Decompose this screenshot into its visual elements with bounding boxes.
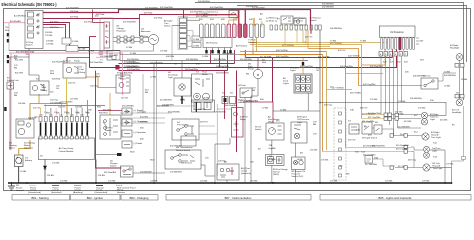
- svg-text:Lights: Lights: [290, 69, 297, 72]
- svg-text:301 Red: 301 Red: [50, 21, 59, 23]
- svg-text:107 Wht: 107 Wht: [70, 98, 79, 101]
- svg-text:12A Blk: 12A Blk: [198, 108, 206, 111]
- svg-text:72 Blk: 72 Blk: [262, 108, 269, 110]
- svg-text:413 Blk: 413 Blk: [404, 121, 412, 123]
- connector pins frame left: [7, 33, 9, 42]
- label E4 Left Hazard: [433, 162, 443, 170]
- module pin labels: [39, 112, 89, 136]
- svg-text:406 Yel: 406 Yel: [360, 108, 368, 110]
- svg-text:Sensor: Sensor: [273, 171, 280, 174]
- svg-text:Light: Light: [168, 76, 173, 79]
- wire tan hour meter drop: [109, 93, 111, 115]
- svg-text:170 Blk: 170 Blk: [330, 181, 338, 183]
- wire gray run y106: [157, 105, 197, 107]
- maroon element in S6: [230, 167, 234, 175]
- maroon rail label patches: [66, 6, 353, 122]
- label E4 tail: [432, 147, 441, 153]
- svg-text:Voltage: Voltage: [117, 27, 125, 30]
- label B2 Voltage Regulator: [117, 26, 127, 33]
- label G2 Alternator: [141, 29, 151, 34]
- svg-text:B+ Blk: B+ Blk: [79, 49, 86, 51]
- svg-text:411 Org/Wht: 411 Org/Wht: [368, 116, 381, 119]
- position box under bars: [203, 38, 232, 48]
- extra tan line y46.5: [255, 46, 330, 48]
- S4 park brake switch: [240, 88, 252, 98]
- fusebox side bracket: [416, 38, 419, 44]
- label M2 Fuel Pump: [248, 64, 254, 71]
- label P1 Fuel Gauge: [268, 116, 280, 124]
- junction instr ground: [319, 182, 321, 184]
- wire VR ground drop: [103, 48, 105, 51]
- label S6: [241, 167, 251, 175]
- svg-text:410 Red/Wht: 410 Red/Wht: [368, 112, 381, 115]
- svg-text:404 Yel/Wht: 404 Yel/Wht: [276, 49, 288, 52]
- pin marks: [224, 98, 227, 102]
- pink connector on acc line: [26, 52, 29, 55]
- svg-text:106 Red: 106 Red: [28, 118, 37, 120]
- wire turn to lights gray: [438, 73, 456, 81]
- svg-text:101 Yel: 101 Yel: [33, 108, 41, 110]
- pink stub wire: [96, 56, 112, 58]
- svg-text:413 Blk/Wht: 413 Blk/Wht: [398, 125, 410, 128]
- wire gray rail y60.7: [120, 60, 308, 62]
- wire black stub y154.5: [96, 154, 117, 156]
- wire maroon rail 301 Red/Wht: [119, 63, 235, 65]
- svg-text:All Light/: All Light/: [164, 20, 173, 23]
- svg-text:W02: W02: [130, 152, 135, 154]
- wire strip fan black2: [172, 24, 187, 26]
- wire instr ground drop: [319, 30, 321, 183]
- svg-text:16 Blk: 16 Blk: [461, 79, 468, 81]
- headlight pin bars: [455, 95, 464, 98]
- svg-text:404 Yel/Wht: 404 Yel/Wht: [348, 55, 360, 58]
- svg-text:452 Wht/Blk: 452 Wht/Blk: [170, 145, 183, 148]
- wire cluster drops: [195, 102, 197, 112]
- label X2 Flood Light: [450, 44, 460, 50]
- svg-text:Regulator: Regulator: [117, 30, 127, 33]
- label A1 Time Delay Control Module: [59, 147, 75, 153]
- svg-text:(+) Indicator (+): (+) Indicator (+): [203, 11, 218, 14]
- svg-text:100 Blk: 100 Blk: [18, 103, 26, 105]
- svg-text:Discharge: Discharge: [168, 74, 179, 77]
- svg-text:170 Blk: 170 Blk: [250, 181, 258, 183]
- svg-text:411 Red/Blk: 411 Red/Blk: [260, 56, 273, 58]
- wire K1 feed from key: [29, 57, 39, 75]
- wire flood down to headlight: [459, 67, 461, 99]
- svg-text:E3 Right: E3 Right: [431, 131, 440, 134]
- wire orange module bus: [44, 105, 105, 107]
- label E6 Dash Lights: [283, 78, 290, 85]
- svg-text:552 Blk/Wht: 552 Blk/Wht: [214, 58, 226, 61]
- K1 start relay: [30, 81, 49, 95]
- svg-text:Ground: Ground: [16, 189, 24, 192]
- svg-text:104 Org: 104 Org: [90, 85, 99, 88]
- extra texture labels mid-left: [30, 16, 455, 165]
- diode labels: [134, 110, 148, 145]
- svg-text:E2 Left: E2 Left: [452, 109, 459, 112]
- svg-text:411 Org/Wht: 411 Org/Wht: [362, 120, 375, 123]
- svg-text:Light: Light: [297, 121, 302, 124]
- label H2 Discharge Light: [168, 72, 179, 79]
- wire S6 ground: [226, 180, 228, 183]
- svg-text:401 Red/Wht: 401 Red/Wht: [66, 6, 79, 9]
- svg-text:452 Wht/Blk: 452 Wht/Blk: [157, 105, 170, 108]
- svg-text:170 Blk: 170 Blk: [160, 50, 168, 52]
- wire tan feed into bars: [234, 15, 238, 24]
- B3 oil pressure switch lower: [292, 157, 306, 170]
- label S1 Key Switch: [26, 42, 34, 47]
- svg-text:Brake: Brake: [202, 73, 208, 76]
- ground: [8, 182, 15, 190]
- svg-text:303 Red/Wht: 303 Red/Wht: [127, 68, 140, 71]
- svg-text:407 Wht/Blk: 407 Wht/Blk: [124, 61, 137, 64]
- svg-text:Circuit: Circuit: [241, 170, 248, 173]
- wire orange feeder from bar: [252, 37, 254, 54]
- svg-text:Solenoid: Solenoid: [24, 148, 33, 150]
- svg-text:414 Blk/Wht: 414 Blk/Wht: [160, 99, 172, 102]
- svg-text:170 Blk: 170 Blk: [446, 164, 454, 166]
- wire E2 headlight ground return: [452, 106, 464, 168]
- wire red U drop left: [238, 9, 240, 24]
- label S4 park brake: [238, 84, 247, 104]
- svg-text:Switch: Switch: [255, 128, 262, 131]
- wire tan E5 feeder: [250, 45, 362, 119]
- svg-text:Solenoid: Solenoid: [248, 42, 257, 44]
- wire tan E4 tail drop: [345, 58, 347, 148]
- svg-text:(-) Operation: (-) Operation: [134, 131, 147, 134]
- svg-text:301 Red: 301 Red: [84, 21, 93, 23]
- svg-text:A1 Wht/Blk: A1 Wht/Blk: [10, 20, 22, 23]
- svg-text:415 Red/Wht: 415 Red/Wht: [396, 144, 409, 147]
- diode pack column: [122, 108, 132, 148]
- svg-text:50A: 50A: [30, 50, 34, 53]
- wire strip ground vertical: [171, 25, 173, 60]
- labels tail feeds: [362, 112, 375, 123]
- hour meter part box: [116, 75, 130, 93]
- label S3 cluster: [196, 72, 208, 77]
- svg-text:6: 6: [66, 134, 67, 136]
- svg-text:K2 Fusebox: K2 Fusebox: [390, 31, 404, 34]
- label K1 Start Relay: [42, 85, 48, 92]
- svg-text:105 Yel: 105 Yel: [68, 83, 76, 85]
- wire tan vertical bundle x327: [326, 52, 328, 151]
- wire battery positive: [18, 149, 20, 156]
- A1 time delay module box: [38, 138, 94, 160]
- wire tan relay feed: [86, 77, 116, 88]
- svg-text:104 Org: 104 Org: [50, 99, 59, 102]
- svg-text:S7 Hazard: S7 Hazard: [310, 17, 321, 20]
- svg-text:406 Blk/Wht: 406 Blk/Wht: [413, 75, 425, 78]
- svg-text:401 Red/Wht: 401 Red/Wht: [190, 10, 203, 13]
- svg-text:418 Yel/Blk: 418 Yel/Blk: [350, 93, 362, 95]
- maroon rail labels: [127, 56, 383, 71]
- P1 fuel gauge: [266, 123, 284, 140]
- wire pink module drop: [10, 53, 12, 150]
- M1 starting motor: [16, 119, 34, 138]
- svg-text:170 Blk: 170 Blk: [98, 175, 106, 177]
- svg-text:303 Red/Wht: 303 Red/Wht: [185, 68, 198, 71]
- svg-text:W0 Position: W0 Position: [206, 42, 218, 45]
- svg-text:W02: W02: [150, 160, 155, 162]
- label X14: [361, 152, 378, 160]
- junction gauge ground: [272, 182, 274, 184]
- svg-text:170 Blk: 170 Blk: [321, 160, 329, 162]
- svg-text:161 Blk: 161 Blk: [310, 150, 318, 152]
- svg-text:(+) Meter (+): (+) Meter (+): [266, 17, 279, 20]
- connector row 2 (270-320): [270, 25, 321, 30]
- ground bus: [8, 182, 452, 184]
- svg-text:460 Red/Blk: 460 Red/Blk: [225, 105, 238, 107]
- wire tan battery to module: [30, 104, 67, 121]
- K2 fuel pump relay: [63, 63, 86, 78]
- wire module ground x96: [95, 160, 97, 184]
- wire fuel pump feed: [257, 58, 259, 69]
- label hour meter: [117, 72, 125, 75]
- wire maroon alternator rail 402 Red: [43, 15, 237, 19]
- svg-text:(-) Meter (-): (-) Meter (-): [266, 20, 277, 23]
- wire A1 ground diode: [44, 160, 47, 184]
- svg-text:170 Blk: 170 Blk: [268, 182, 276, 184]
- wire orange aux rail 400 Org: [240, 54, 323, 56]
- wire maroon fuel gauge drop: [243, 102, 273, 123]
- svg-text:170 Blk: 170 Blk: [46, 44, 54, 46]
- svg-text:417 Yel/Wht: 417 Yel/Wht: [332, 86, 344, 89]
- svg-text:(Switched): (Switched): [51, 191, 62, 194]
- position box pin marks: [205, 50, 231, 53]
- wire K1 top: [38, 75, 40, 81]
- svg-text:Switch: Switch: [310, 19, 317, 22]
- legend row: [8, 182, 136, 194]
- svg-text:Hazard/: Hazard/: [431, 134, 439, 137]
- E5 right tail turn light: [421, 112, 427, 125]
- svg-text:Tail/Turn: Tail/Turn: [432, 147, 441, 150]
- svg-text:408 Wht: 408 Wht: [166, 55, 175, 58]
- svg-text:(120): (120): [180, 100, 185, 102]
- label S2 light turn switch: [164, 20, 173, 28]
- wire tan aux rail 404 Yel/Wht: [240, 51, 327, 53]
- svg-text:B03 - Charging: B03 - Charging: [130, 196, 149, 200]
- svg-text:14 Blk: 14 Blk: [193, 45, 200, 47]
- svg-text:417 Blk/Wht: 417 Blk/Wht: [365, 163, 377, 166]
- svg-text:30 Red/Wht: 30 Red/Wht: [222, 52, 234, 55]
- wire orange vertical x358: [308, 49, 359, 86]
- hazard switch box: [281, 16, 293, 24]
- flood connector bars: [455, 64, 464, 68]
- turn signal switch: [421, 78, 438, 89]
- svg-text:Relay: Relay: [80, 72, 86, 74]
- label M1 Starting Motor: [9, 142, 36, 150]
- wire orange fuse riser: [361, 50, 385, 66]
- wire label texture group 2: [5, 5, 459, 184]
- labels gauge wires: [269, 145, 277, 161]
- K3 PTO relay maroon: [232, 108, 244, 138]
- svg-text:170 Blk: 170 Blk: [60, 181, 68, 183]
- svg-text:E4 Left: E4 Left: [433, 162, 440, 165]
- section box B03 Charging: [121, 195, 158, 201]
- wire discharge drop: [181, 61, 183, 78]
- svg-text:418 Org: 418 Org: [408, 159, 417, 162]
- svg-text:401 Red/Wht: 401 Red/Wht: [160, 6, 173, 9]
- svg-text:E05 Red: E05 Red: [99, 113, 108, 115]
- W3 pins: [339, 112, 342, 177]
- svg-text:Motor: Motor: [9, 147, 15, 150]
- B2 voltage regulator: [100, 18, 113, 51]
- svg-text:12 Blk: 12 Blk: [88, 50, 95, 52]
- label E2 Left Headlight: [452, 109, 462, 115]
- svg-text:401 Red/Wht: 401 Red/Wht: [145, 6, 158, 9]
- wire maroon strip feed: [183, 9, 185, 18]
- label F1 Fusible Link: [7, 78, 19, 83]
- wire alternator maroon drop: [139, 19, 141, 37]
- svg-text:416 Org/Wht: 416 Org/Wht: [396, 148, 409, 151]
- X14 connector box left of E4: [365, 156, 373, 164]
- wire gray run y109: [217, 108, 231, 110]
- wire pink key switch feed: [4, 22, 25, 24]
- svg-text:8: 8: [76, 134, 77, 136]
- svg-text:Tail/Turn: Tail/Turn: [430, 116, 439, 119]
- svg-text:453 Wht/Blk: 453 Wht/Blk: [168, 110, 181, 113]
- svg-text:552 Blk/Wht: 552 Blk/Wht: [186, 58, 198, 61]
- svg-text:402 Red: 402 Red: [96, 14, 105, 16]
- wire maroon main rail 401 Red/Wht: [43, 10, 311, 26]
- svg-text:9: 9: [81, 134, 82, 136]
- svg-text:301 Red/Wht: 301 Red/Wht: [150, 61, 163, 64]
- svg-text:E3 Right: E3 Right: [450, 44, 459, 47]
- svg-text:Light: Light: [430, 118, 435, 121]
- svg-text:471 Red/Blk: 471 Red/Blk: [240, 100, 253, 102]
- wire X14 link: [373, 159, 396, 166]
- svg-text:Hour: Hour: [120, 75, 125, 78]
- labels small boxes: [193, 39, 200, 48]
- svg-text:300 Red: 300 Red: [124, 73, 133, 75]
- svg-text:Yel: Yel: [316, 70, 319, 72]
- fusebox K2: [379, 26, 415, 37]
- svg-text:(Unswitched): (Unswitched): [95, 191, 108, 194]
- junction panel ground: [153, 182, 155, 184]
- svg-text:125 Blk/Wht: 125 Blk/Wht: [170, 171, 182, 174]
- wire orange vertical bundle x323: [322, 55, 324, 152]
- wire gray vertical x143: [142, 74, 144, 113]
- wire maroon instrument drop x224: [224, 71, 226, 120]
- E4 left tail turn light: [424, 146, 430, 158]
- svg-text:801 Wht: 801 Wht: [15, 59, 24, 62]
- svg-text:302 Red/Wht: 302 Red/Wht: [216, 65, 229, 68]
- wire S1 S maroon: [43, 25, 66, 39]
- svg-text:461 Red: 461 Red: [103, 110, 112, 112]
- svg-text:72 Blk: 72 Blk: [280, 109, 287, 111]
- svg-text:14 Blk: 14 Blk: [202, 56, 209, 58]
- wire label texture group: [15, 11, 448, 183]
- wire E4 feeds orange: [323, 148, 412, 152]
- svg-text:102 Yel: 102 Yel: [58, 107, 66, 109]
- wire S1 ground drop: [9, 49, 29, 58]
- svg-text:453 Wht/Blk: 453 Wht/Blk: [122, 105, 135, 108]
- svg-text:305 Red: 305 Red: [70, 11, 79, 13]
- F1 fusible link: [7, 82, 14, 89]
- svg-text:Start: Start: [42, 86, 47, 89]
- wire maroon A1 plug: [96, 71, 122, 169]
- wire tan branch y73.5: [346, 73, 384, 75]
- svg-text:500 Blk/Wht: 500 Blk/Wht: [322, 3, 334, 6]
- svg-text:72 Blk: 72 Blk: [360, 41, 367, 43]
- wire strip fan gray4: [187, 36, 191, 40]
- svg-text:302 Red/Wht: 302 Red/Wht: [300, 65, 313, 68]
- wire maroon rail 303 Red/Wht: [119, 70, 228, 72]
- svg-text:Lights: Lights: [283, 82, 290, 85]
- battery G1: [15, 155, 24, 167]
- wire gray rail y54.5: [120, 54, 273, 56]
- wire brake cluster drop: [195, 102, 197, 112]
- svg-text:415 Red: 415 Red: [140, 36, 149, 38]
- M3 transmission neutral switch: [165, 150, 201, 169]
- label S4 PTO Switch: [177, 122, 189, 127]
- svg-text:415 Red/Wht: 415 Red/Wht: [372, 144, 385, 147]
- labels E4 feeds: [363, 144, 376, 156]
- wire pink accessory run: [9, 53, 123, 95]
- fuses: [381, 38, 415, 50]
- svg-text:(+) Diode: (+) Diode: [137, 111, 147, 113]
- svg-text:170 Blk: 170 Blk: [418, 108, 426, 110]
- wire orange feeder drop: [252, 50, 254, 54]
- headlight switch pin row: [379, 52, 407, 57]
- wire S4 outputs: [199, 126, 217, 134]
- wire relay internals: [234, 112, 239, 130]
- wire red U lower extension: [244, 50, 246, 58]
- wire S1 acc black: [43, 26, 64, 28]
- svg-text:126 Blk: 126 Blk: [202, 98, 210, 100]
- svg-text:128 Gry: 128 Gry: [218, 160, 227, 163]
- svg-text:4: 4: [55, 134, 56, 136]
- svg-text:170 Blk: 170 Blk: [422, 181, 430, 183]
- label G1 Battery: [25, 158, 33, 163]
- labels to E5: [396, 113, 412, 123]
- svg-text:M3 Neutral: M3 Neutral: [181, 162, 192, 165]
- wire maroon fuel gauge drop x273: [272, 58, 274, 103]
- svg-text:X1 Blk: X1 Blk: [72, 41, 79, 43]
- svg-text:Turn: Turn: [164, 22, 169, 25]
- wire black rail y51: [9, 50, 120, 52]
- wire seat to nss: [133, 172, 165, 174]
- svg-text:103 Blk: 103 Blk: [46, 41, 54, 43]
- svg-text:Yel: Yel: [56, 88, 59, 90]
- svg-text:500 Blk/Wht: 500 Blk/Wht: [410, 97, 422, 100]
- svg-text:2: 2: [45, 134, 46, 136]
- dash lights connector block: [294, 74, 312, 93]
- fuel solenoid box: [294, 18, 306, 25]
- wire dash lights ground: [308, 93, 320, 111]
- svg-text:S4 PTO: S4 PTO: [200, 122, 208, 124]
- svg-text:170 Blk: 170 Blk: [45, 35, 53, 37]
- wire maroon riser x210: [210, 50, 212, 64]
- W3 harness dashed strip: [334, 108, 346, 180]
- svg-text:Switch: Switch: [105, 129, 112, 132]
- svg-text:Pump: Pump: [74, 61, 80, 63]
- V1 connector box pair: [192, 100, 215, 112]
- svg-text:A3 (P)art: A3 (P)art: [241, 167, 250, 170]
- indicator labels: [203, 11, 218, 17]
- svg-text:B02 - Ignition: B02 - Ignition: [87, 196, 104, 200]
- svg-text:Harness: Harness: [117, 191, 126, 194]
- wire module pin feeds: [41, 100, 88, 117]
- svg-text:(-) Indicator (-): (-) Indicator (-): [203, 14, 217, 17]
- svg-text:Fuel: Fuel: [80, 69, 85, 71]
- svg-text:403 Org/Wht: 403 Org/Wht: [363, 83, 376, 86]
- svg-text:502 Blk/Wht: 502 Blk/Wht: [322, 6, 334, 9]
- svg-text:Pump: Pump: [248, 69, 254, 71]
- left edge pins lower: [7, 55, 9, 63]
- fuse highlighted maroon: [399, 37, 402, 50]
- svg-text:170 Blk: 170 Blk: [385, 181, 393, 183]
